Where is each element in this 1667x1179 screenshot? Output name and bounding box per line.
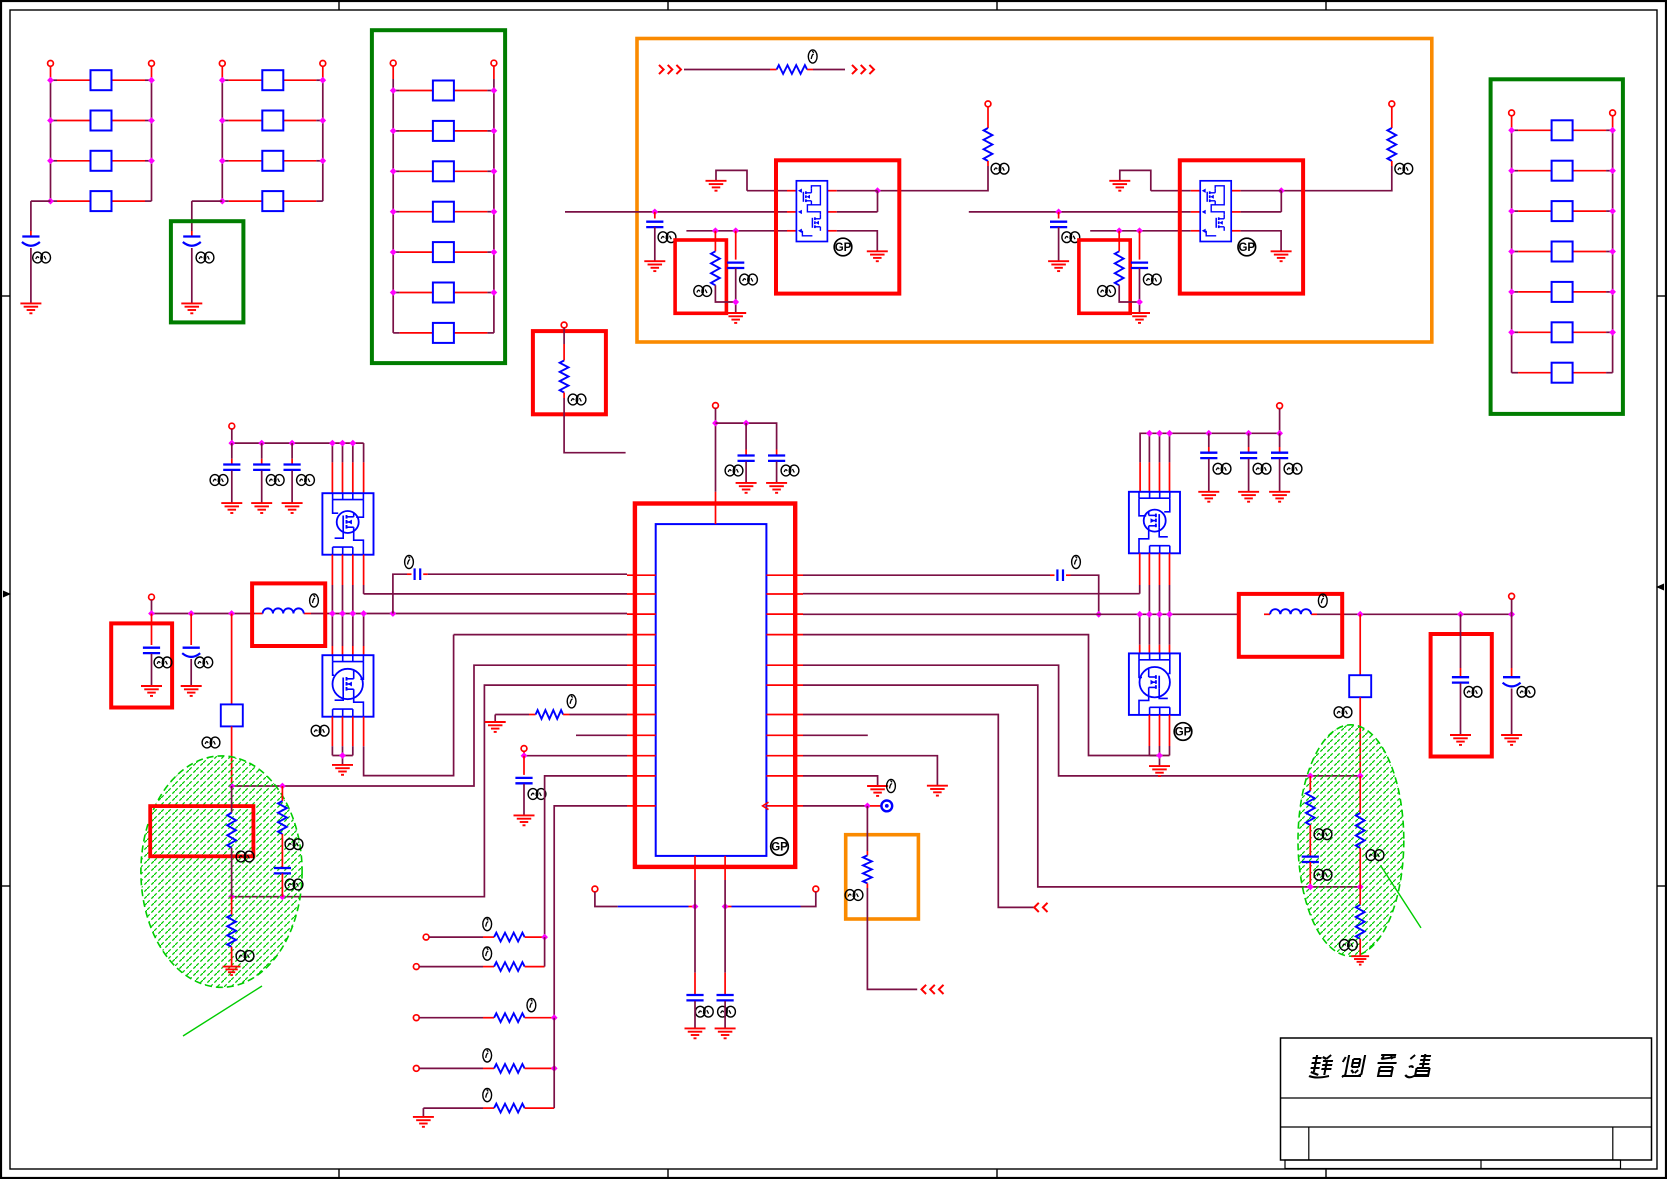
label GP (driver A) — [834, 238, 852, 256]
dual MOSFET U-A — [796, 181, 827, 242]
port P-IC-top — [713, 403, 719, 409]
junction B C-in — [1055, 209, 1062, 216]
label L2 — [1318, 594, 1327, 607]
label R-A — [991, 163, 1009, 174]
label C-vcc-B — [781, 465, 799, 476]
wire array4 row4 — [1512, 251, 1613, 253]
junction array3 L5 — [390, 249, 397, 256]
wire R-B to pin1 — [1281, 161, 1392, 191]
wire Rvrm cap3 top — [1279, 433, 1281, 452]
label Cg-A — [740, 274, 758, 285]
capacitor C-div — [274, 868, 291, 873]
capacitor C2 — [183, 237, 201, 246]
testpoint TP1 — [881, 801, 892, 812]
wire C-L9 gnd — [523, 784, 525, 816]
capacitor C-Lo1 — [143, 648, 160, 653]
capacitor C-Lin2 — [253, 465, 270, 470]
label R-L7 — [567, 695, 576, 708]
label C-L9 — [528, 789, 546, 800]
junction rail phase — [228, 610, 235, 617]
junction array2 R1 — [319, 77, 326, 84]
junction phase-R6 — [1357, 884, 1364, 891]
wire A pin2 right — [827, 211, 877, 213]
resistor R-jumper — [777, 65, 808, 74]
wire Q-L-low gate down — [364, 635, 454, 776]
transistor Q-R-low — [1129, 653, 1180, 715]
junction array3 R4 — [491, 208, 498, 215]
junction L6 phase — [228, 893, 235, 900]
junction rail col x342 — [339, 610, 346, 617]
wire C-osc-R gnd — [724, 1001, 726, 1028]
red box (R out caps) — [1431, 634, 1492, 757]
wire Lvrm cap2 top — [261, 443, 263, 464]
resistor RP3-6 — [433, 283, 454, 303]
junction array2 L2 — [219, 117, 226, 124]
capacitor C-fb-L — [415, 568, 421, 580]
IC right pin stubs — [766, 575, 803, 806]
svg-text:GP: GP — [835, 242, 852, 254]
resistor R-lad4 — [494, 1064, 524, 1073]
wire C-Lo2 stub — [190, 614, 192, 646]
wire R-gnd-R top — [1359, 887, 1361, 905]
capacitor C-Rin2 — [1240, 453, 1257, 458]
junction array4 L6 — [1508, 329, 1515, 336]
ground (C-Lin1) — [221, 503, 242, 513]
wire array1 row3 — [51, 160, 152, 162]
junction right rail x1149 — [1146, 611, 1153, 618]
off-page arrows R7 — [1034, 903, 1047, 912]
wire B gnd stub top-left — [1120, 170, 1151, 190]
wire R11 down — [866, 806, 868, 856]
IC pin R11 input arrow — [763, 802, 769, 809]
port P8 (array4 right) — [1610, 110, 1616, 116]
wire Rvrm cap3 gnd — [1279, 459, 1281, 492]
wire R-div2 to cap — [281, 834, 283, 868]
wire R4 net — [803, 635, 1160, 756]
small red box (R-Ag) — [675, 240, 726, 313]
wire R-div1 bottom — [231, 848, 233, 897]
ground (C-Rin2) — [1238, 492, 1259, 502]
wires Rvrm columns (top) — [1140, 433, 1169, 492]
wire C-Lo1 gnd — [151, 654, 153, 686]
label L1 — [310, 594, 319, 607]
junction right rail x1169 — [1166, 611, 1173, 618]
svg-text:GP: GP — [1238, 242, 1255, 254]
green highlight box (C2) — [171, 221, 244, 322]
ground (C-osc-R) — [715, 1028, 736, 1038]
ground (R9) — [927, 786, 948, 796]
resistor RP4-4 — [1552, 242, 1573, 262]
wire R7 net — [803, 715, 1035, 908]
wire Rout port stub — [1511, 599, 1513, 614]
junction R-cmp top — [1307, 773, 1314, 780]
resistor R-lad5 — [494, 1104, 524, 1113]
wire array3 row4 — [393, 211, 494, 213]
wire Rvrm cap2 gnd — [1248, 459, 1250, 492]
port P-Lvrm-top — [229, 423, 235, 429]
right border center arrow — [1656, 584, 1664, 591]
wire Rg-B top stub — [1118, 231, 1120, 252]
junction right rail x1139 — [1136, 611, 1143, 618]
junction array1 L1 — [47, 77, 54, 84]
label C1 value — [33, 252, 51, 263]
port P-osc-L — [592, 886, 598, 892]
label C-Lin3 — [297, 475, 315, 486]
label C-fb-L — [405, 555, 414, 568]
label Cg-B — [1143, 274, 1161, 285]
wire array2 to C2 — [192, 201, 223, 236]
wire C-cmp bottom — [1309, 862, 1311, 887]
wire B C-in to gnd — [1058, 227, 1060, 261]
wire ladder railA — [544, 937, 546, 967]
label C-Rin2 — [1253, 463, 1271, 474]
resistor RP2-3 — [262, 151, 283, 171]
resistor RP1-1 — [91, 70, 112, 90]
label R-tp — [845, 890, 863, 901]
IC bottom pins — [695, 856, 725, 880]
wire array1 to C1 — [31, 201, 51, 236]
wire array1 row2 — [51, 120, 152, 122]
label R-en — [568, 394, 586, 405]
port P-B (boot) — [1389, 101, 1395, 107]
junction array1 L2 — [47, 117, 54, 124]
ground (C-Lo2) — [181, 686, 202, 696]
ground (Q-L-low) — [332, 765, 353, 775]
wire phase to sense-res — [231, 614, 233, 705]
wire array1 row1 — [51, 79, 152, 81]
wire L7 gnd stub — [494, 715, 496, 723]
resistor RP3-7 — [433, 323, 454, 343]
wire C-osc-L gnd — [694, 1001, 696, 1028]
IC left pin stubs — [627, 575, 656, 806]
wire L10 net — [545, 776, 627, 937]
ground (Q-R-low) — [1149, 766, 1170, 776]
junction array2 L1 — [219, 77, 226, 84]
wire C2 to gnd — [191, 248, 193, 303]
wire lad3 right — [525, 1017, 555, 1019]
wire Cg-B bottom — [1139, 268, 1141, 312]
wire R-gnd top — [231, 897, 233, 915]
capacitor C-in-B — [1050, 222, 1067, 227]
wire capA stub — [745, 423, 747, 455]
resistor R-B (boot) — [1387, 128, 1396, 161]
wire right rail — [803, 613, 1512, 615]
wire capA to gnd — [745, 462, 747, 483]
label R-B — [1395, 163, 1413, 174]
port P-lad2 — [413, 964, 419, 970]
capacitor C-osc-L — [686, 995, 703, 1000]
junction array3 R6 — [491, 289, 498, 296]
junction rail phase R — [1357, 611, 1364, 618]
ground (C-Lo1) — [141, 686, 162, 696]
wire R-cmp top stub — [1309, 776, 1311, 791]
wire array3 row3 — [393, 170, 494, 172]
wire lad1 left — [429, 936, 494, 938]
wire B pin1-pin2 link — [1280, 191, 1282, 212]
capacitor C-L9 — [515, 778, 532, 783]
wire R-tp down — [867, 883, 917, 989]
resistor R-gnd-R — [1356, 905, 1365, 939]
junction array1 L3 — [47, 157, 54, 164]
wire from R-jumper — [807, 69, 845, 71]
junction Rvrm col x1149 — [1146, 430, 1153, 437]
wire Rvrm cap1 top — [1208, 433, 1210, 452]
junction L6 Cdiv — [279, 893, 286, 900]
wire L4 to IC — [454, 634, 627, 636]
leader line right ellipse — [1380, 865, 1421, 928]
ground (B RC) — [1129, 313, 1150, 323]
ground (B C-in) — [1048, 261, 1069, 271]
label (R10 gnd) — [887, 779, 896, 792]
wire lad5 right — [525, 1107, 555, 1109]
wire array3 row2 — [393, 130, 494, 132]
wire R6 net — [803, 685, 1360, 887]
array2 rails — [222, 66, 322, 201]
junction array3 L2 — [390, 128, 397, 135]
wire C-L9 stub — [523, 756, 525, 775]
resistor RP1-4 — [91, 191, 112, 211]
wire A pin1-pin2 link — [877, 191, 879, 212]
orange highlight box (R-tp) — [846, 835, 919, 919]
wire Rg-A bottom — [715, 285, 735, 302]
resistor RP1-3 — [91, 151, 112, 171]
junction osc L — [692, 903, 699, 910]
label C-Rin3 — [1284, 463, 1302, 474]
junction Lvrm col x332 — [329, 440, 336, 447]
port P-Rvrm-top — [1277, 403, 1283, 409]
wire R1 to C-fb-R — [803, 574, 1055, 576]
junction A RC bottom — [732, 299, 739, 306]
wire port stub — [715, 408, 717, 423]
wires Rvrm columns (mid) — [1140, 553, 1170, 653]
resistor R-div1 — [227, 813, 236, 848]
wire Lvrm cap1 gnd — [231, 471, 233, 504]
sense component RS-L — [221, 704, 243, 726]
ground (R10) — [867, 786, 888, 796]
leader line left ellipse — [183, 986, 262, 1036]
wire Rvrm cap2 top — [1248, 433, 1250, 452]
wire array4 row3 — [1512, 210, 1613, 212]
wire array2 row2 — [222, 120, 322, 122]
junction array4 R6 — [1609, 329, 1616, 336]
junction rail Lout — [148, 610, 155, 617]
red box (R-div1) — [150, 806, 253, 856]
capacitor Cg-A — [727, 263, 744, 268]
wire capB stub — [776, 450, 778, 456]
array1 rails — [51, 66, 152, 201]
wire R-L7 to IC — [563, 714, 627, 716]
wire Cg-B top stub — [1139, 231, 1141, 260]
ground (R-gnd-L) — [223, 967, 241, 975]
wire Rg-B bottom — [1119, 285, 1139, 302]
ground (C-Rin1) — [1198, 492, 1219, 502]
port P-lad1 — [423, 934, 429, 940]
wire A C-in stub — [654, 212, 656, 219]
wire R2 gate line — [803, 593, 1140, 595]
wire lad2 left — [419, 966, 494, 968]
wire L6 net — [232, 685, 627, 897]
label RS-R — [1334, 707, 1352, 718]
label GP (IC) — [771, 838, 789, 856]
wire to R-jumper — [684, 69, 777, 71]
junction array3 R5 — [491, 249, 498, 256]
green highlight box (array4) — [1491, 79, 1623, 414]
label C-Ro1 — [1464, 686, 1482, 697]
small red box (R-Bg) — [1079, 240, 1130, 313]
junction Lvrm cap3 — [289, 440, 296, 447]
highlight ellipse right (feedback) — [1298, 725, 1404, 956]
red box (controller) — [635, 504, 795, 867]
wire IC top to port — [715, 423, 717, 492]
ground (C-Lin3) — [282, 503, 303, 513]
junction array1 L4 — [47, 198, 54, 205]
junction Rvrm cap2 — [1245, 430, 1252, 437]
wire phase R down — [1359, 614, 1361, 675]
junction phase-R5 — [1357, 773, 1364, 780]
label R-div1 — [236, 851, 254, 862]
wire A gnd stub top-left — [716, 170, 747, 190]
capacitor C-fb-R — [1057, 569, 1063, 581]
label C-Lo2 — [195, 657, 213, 668]
label C-osc-L — [695, 1006, 713, 1017]
ground (ladder) — [413, 1117, 434, 1127]
wire lad2 right — [525, 966, 545, 968]
label C-in-A — [658, 232, 676, 243]
wire C-div bottom — [281, 873, 283, 896]
wire array3 row6 — [393, 292, 494, 294]
svg-text:GP: GP — [771, 842, 788, 854]
resistor RP3-1 — [433, 81, 454, 101]
label C-Lin1 — [210, 475, 228, 486]
junction array1 R3 — [148, 157, 155, 164]
port P6 (array3 right) — [491, 60, 497, 66]
junction rail sense — [390, 610, 397, 617]
junction L5 phase — [228, 783, 235, 790]
junction rail C-Ro1 — [1457, 611, 1464, 618]
label R-div2 — [285, 839, 303, 850]
resistor Rg-B — [1115, 251, 1124, 285]
resistor R-fb2 — [1356, 813, 1365, 848]
wire ladder railB — [553, 1018, 555, 1108]
junction R-cmp bottom — [1307, 884, 1314, 891]
wire Lvrm cap3 top — [291, 443, 293, 464]
resistor R-en — [560, 361, 569, 393]
junction array3 L3 — [390, 168, 397, 175]
junction array4 R5 — [1609, 289, 1616, 296]
port P7 (array4 left) — [1509, 110, 1515, 116]
svg-text:GP: GP — [1175, 727, 1192, 739]
wire R-fb2 top stub — [1359, 776, 1361, 813]
wire lad5 gnd side — [423, 1107, 494, 1109]
wire Lvrm cap2 gnd — [261, 471, 263, 504]
label C-Lin2 — [266, 475, 284, 486]
label GP (driver B) — [1238, 238, 1256, 256]
wire A pin3 left — [686, 230, 796, 232]
wire IC bottom pin1 down — [694, 880, 696, 995]
wire B pin3 left — [1090, 230, 1200, 232]
ground (C-Ro2) — [1501, 735, 1522, 745]
label R-jumper — [808, 50, 817, 63]
ground (L7) — [485, 722, 506, 732]
junction array3 L4 — [390, 208, 397, 215]
wire A pin1 right — [827, 190, 877, 192]
junction rail col x363 — [360, 610, 367, 617]
capacitor C-Lin3 — [284, 465, 301, 470]
junction Lvrm cap2 — [258, 440, 265, 447]
label R-lad1 — [483, 918, 492, 931]
transistor Q-R-high — [1129, 492, 1180, 554]
wires Lvrm columns (mid) — [332, 555, 363, 656]
resistor RP3-3 — [433, 161, 454, 181]
port P2 (array1 right) — [149, 61, 155, 67]
label C-div — [285, 879, 303, 890]
wire C-fb-R to rail — [1066, 575, 1099, 614]
port P-A (boot) — [985, 101, 991, 107]
red box (R inductor) — [1239, 594, 1342, 657]
ground (B pin3) — [1271, 251, 1292, 261]
label C-osc-R — [718, 1006, 736, 1017]
capacitor C-vcc-B — [768, 456, 785, 461]
port P-lad3 — [413, 1015, 419, 1021]
junction array4 L1 — [1508, 127, 1515, 134]
resistor R-A (boot) — [984, 128, 993, 161]
wire array2 row1 — [222, 79, 322, 81]
transistor Q-L-low — [322, 655, 373, 717]
ground (C-Rin3) — [1269, 492, 1290, 502]
junction rail port R — [1508, 611, 1515, 618]
capacitor C-osc-R — [717, 995, 734, 1000]
ground (C-Ro1) — [1450, 735, 1471, 745]
wire R-A to pin1 — [878, 161, 989, 191]
wire L7 gnd side — [495, 714, 535, 716]
ground (C-vcc-A) — [736, 483, 757, 493]
junction array4 R4 — [1609, 248, 1616, 255]
wires Q-R-low source to gnd — [1149, 715, 1169, 766]
capacitor C-Rin3 — [1271, 453, 1288, 458]
wire A pin1 left — [747, 190, 796, 192]
wire array1 row4 — [51, 200, 152, 202]
port P3 (array2 left) — [219, 61, 225, 67]
IC top pin — [715, 492, 717, 524]
junction array2 L4 — [219, 198, 226, 205]
wires Q-L-low source to gnd — [332, 717, 352, 765]
capacitor C-cmp — [1302, 857, 1319, 862]
junction lad3 — [551, 1014, 558, 1021]
capacitor C-vcc-A — [738, 456, 755, 461]
wire R-div2 top stub — [281, 786, 283, 801]
junction Q-R-low gnd — [1156, 752, 1163, 759]
junction IC-top port — [712, 420, 719, 427]
wire Cg-A bottom — [735, 268, 737, 312]
wire port to R-A — [987, 107, 989, 128]
wire RS-R down — [1359, 697, 1361, 776]
wire R-div1 top — [231, 786, 233, 813]
wire C-Ro1 stub — [1460, 614, 1462, 677]
capacitor C-Ro1 — [1452, 677, 1469, 682]
wire R-cmp to cap — [1309, 825, 1311, 857]
junction L9 — [521, 752, 528, 759]
wire C-Ro2 gnd — [1511, 689, 1513, 736]
junction array3 R1 — [491, 87, 498, 94]
junction array3 L1 — [390, 87, 397, 94]
wire Lvrm top bus — [232, 429, 364, 443]
wire L8 stub — [576, 734, 627, 736]
junction A pin1 — [874, 187, 881, 194]
ground (C2) — [181, 303, 202, 313]
ground (C-osc-L) — [685, 1028, 706, 1038]
port P4 (array2 right) — [320, 61, 326, 67]
wire lad4 right — [525, 1067, 555, 1069]
